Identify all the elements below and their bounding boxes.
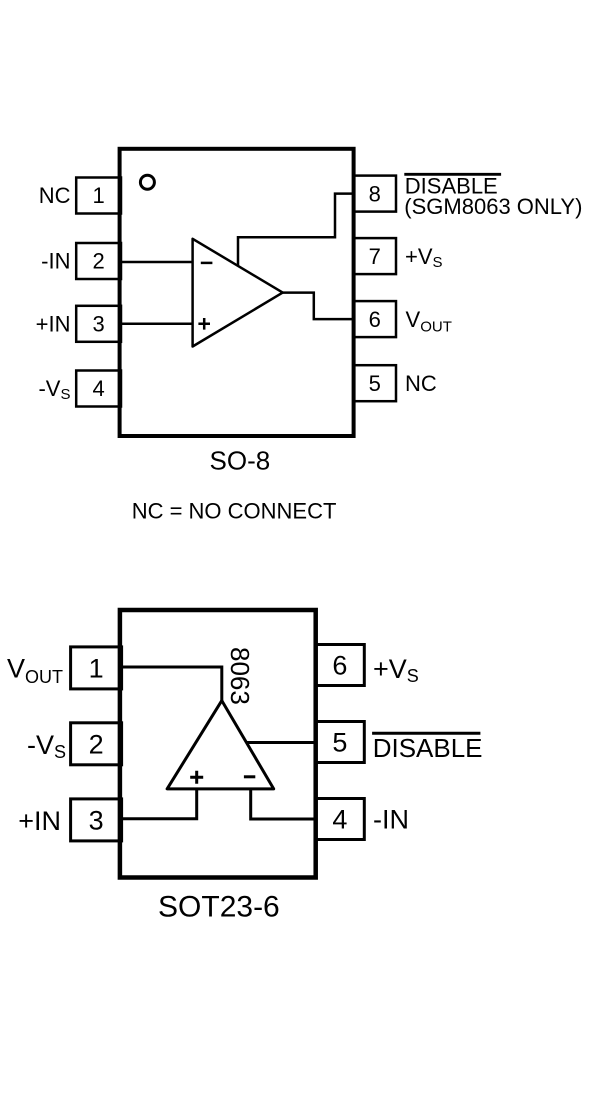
pin 2 box (SOT) (71, 723, 122, 765)
pin 6 box (354, 301, 397, 337)
pin 5 box (354, 365, 397, 401)
svg-text:NC = NO CONNECT: NC = NO CONNECT (132, 499, 337, 524)
svg-text:8063: 8063 (225, 647, 255, 705)
label DISABLE overline pin5 (SOT) (372, 732, 480, 735)
op-amp A2 non-inverting input plus sign (190, 771, 203, 784)
svg-text:VOUT: VOUT (406, 307, 452, 336)
svg-text:VOUT: VOUT (7, 654, 63, 688)
pin 8 box (354, 176, 397, 212)
wire DISABLE op-amp to pin5 (246, 741, 315, 744)
pin 4 box (SOT) (316, 799, 365, 840)
svg-text:DISABLE: DISABLE (373, 733, 483, 763)
wire DISABLE pin8 to op-amp top (238, 194, 354, 266)
svg-text:+IN: +IN (18, 806, 61, 836)
pin 3 box (SOT) (71, 799, 122, 841)
wire VOUT pin1 to op-amp output (120, 667, 222, 701)
pin 6 box (SOT) (316, 645, 365, 686)
svg-text:1: 1 (89, 654, 104, 684)
svg-text:5: 5 (332, 728, 347, 758)
pin 7 box (354, 238, 397, 274)
wire +IN pin3 to op-amp (121, 323, 193, 326)
svg-text:+IN: +IN (36, 312, 71, 337)
pin 2 box (76, 243, 121, 279)
svg-text:-VS: -VS (27, 730, 66, 762)
svg-text:NC: NC (405, 371, 437, 396)
wire +IN pin3 to op-amp (120, 789, 197, 819)
label DISABLE overline pin8 (404, 173, 501, 176)
pin 3 box (76, 306, 121, 342)
op-amp A2 triangle (167, 701, 274, 789)
pin 1 box (SOT) (71, 647, 122, 689)
op-amp A2 inverting input minus sign (244, 775, 255, 778)
IC package U1 SO-8 body (120, 149, 354, 436)
svg-text:-IN: -IN (373, 804, 409, 834)
svg-text:6: 6 (369, 307, 381, 332)
wire -IN pin2 to op-amp (121, 261, 193, 264)
svg-text:3: 3 (89, 806, 104, 836)
svg-text:3: 3 (92, 312, 104, 337)
wire output op-amp to pin6 (283, 293, 354, 320)
op-amp A1 triangle (193, 239, 283, 347)
svg-text:2: 2 (89, 730, 104, 760)
op-amp A1 inverting input minus sign (201, 262, 213, 265)
svg-text:6: 6 (332, 651, 347, 681)
pin 5 box (SOT) (316, 722, 365, 763)
op-amp A1 non-inverting input plus sign (198, 318, 210, 330)
svg-text:-VS: -VS (38, 376, 70, 403)
svg-text:+VS: +VS (405, 244, 443, 271)
pin-1 marker circle (140, 175, 154, 189)
svg-text:4: 4 (92, 376, 104, 401)
svg-text:NC: NC (39, 183, 71, 208)
pin 4 box (76, 371, 121, 407)
wire -IN pin4 to op-amp (251, 789, 316, 819)
svg-text:4: 4 (332, 805, 347, 835)
svg-text:SO-8: SO-8 (210, 446, 271, 476)
svg-text:(SGM8063 ONLY): (SGM8063 ONLY) (404, 194, 582, 219)
svg-text:+VS: +VS (373, 654, 419, 686)
svg-text:1: 1 (92, 183, 104, 208)
IC package U2 SOT23-6 body (120, 610, 316, 878)
svg-text:-IN: -IN (41, 249, 70, 274)
svg-text:8: 8 (369, 181, 381, 206)
pin 1 box (76, 178, 121, 214)
svg-text:2: 2 (92, 249, 104, 274)
svg-text:5: 5 (369, 371, 381, 396)
svg-text:SOT23-6: SOT23-6 (158, 891, 280, 924)
svg-text:7: 7 (369, 244, 381, 269)
